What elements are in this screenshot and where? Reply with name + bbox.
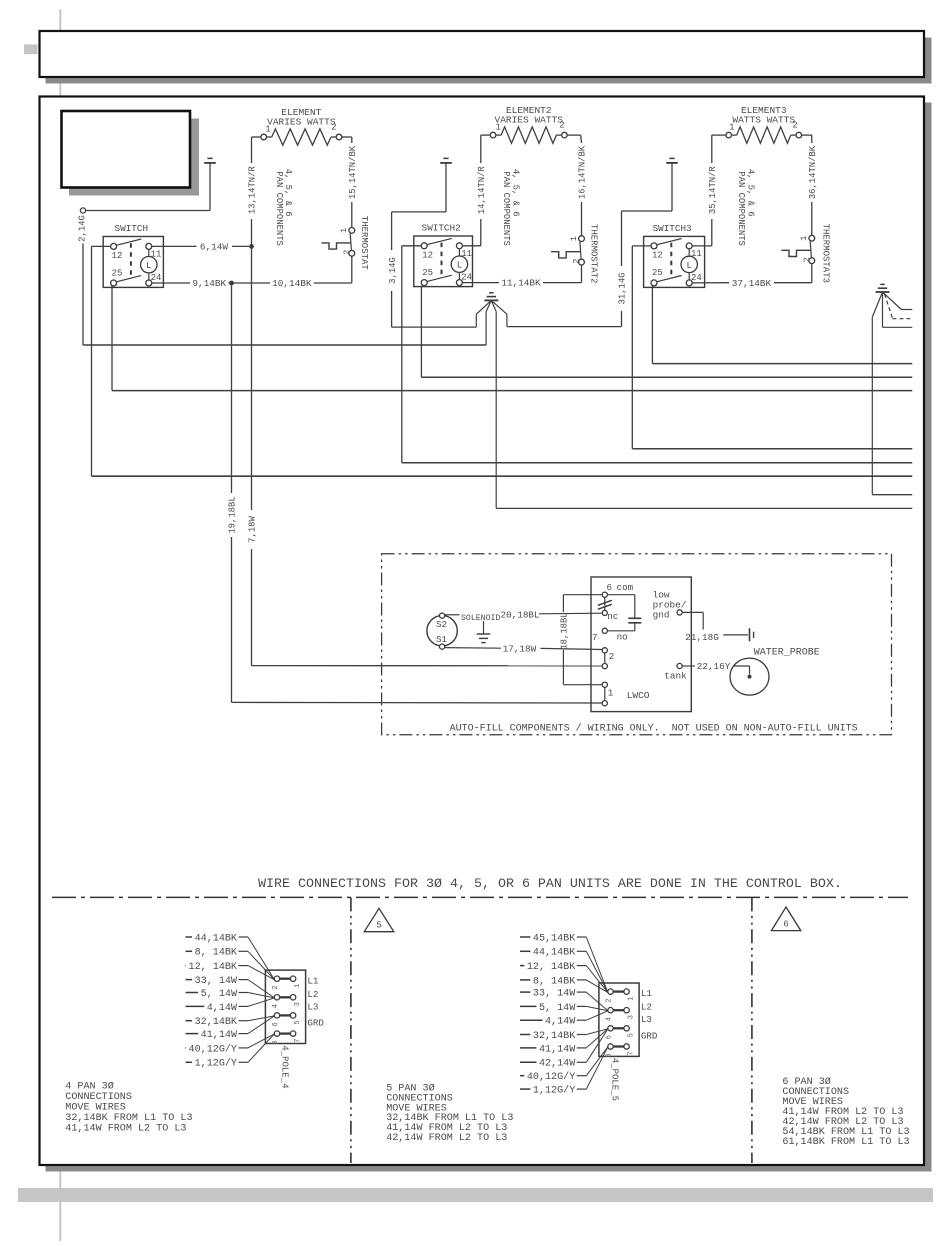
svg-text:41,14W FROM L2 TO L3: 41,14W FROM L2 TO L3 [65,1123,186,1134]
svg-text:CONNECTIONS: CONNECTIONS [65,1092,132,1103]
svg-text:4: 4 [605,1017,613,1021]
svg-text:WATER_PROBE: WATER_PROBE [754,648,820,659]
svg-text:17,18W: 17,18W [503,643,537,654]
svg-text:25: 25 [652,268,663,278]
svg-text:1: 1 [799,236,809,241]
svg-text:33, 14W: 33, 14W [195,976,238,987]
svg-text:L2: L2 [307,989,318,1000]
svg-text:33, 14W: 33, 14W [533,989,576,1000]
svg-text:31,14G: 31,14G [618,273,628,305]
svg-text:1: 1 [265,125,270,135]
svg-text:9,14BK: 9,14BK [192,278,226,289]
svg-text:L: L [146,261,151,271]
svg-text:THERMOSTAT: THERMOSTAT [359,216,369,271]
svg-text:L: L [457,261,462,271]
svg-text:8: 8 [272,1040,280,1044]
svg-text:SWITCH: SWITCH [115,223,148,234]
svg-text:2: 2 [331,123,336,133]
svg-text:2: 2 [272,986,280,990]
svg-text:THERMOSTAT2: THERMOSTAT2 [588,224,598,283]
svg-text:24: 24 [461,273,472,283]
svg-text:1: 1 [729,123,734,133]
svg-text:12, 14BK: 12, 14BK [189,962,238,973]
svg-text:5, 14W: 5, 14W [539,1003,576,1014]
svg-text:PAN COMPONENTS: PAN COMPONENTS [274,171,284,246]
svg-text:25: 25 [422,268,433,278]
svg-text:2: 2 [609,651,615,662]
svg-text:7: 7 [294,1038,302,1042]
svg-text:20,18BL: 20,18BL [501,609,540,620]
svg-text:L1: L1 [307,975,319,986]
svg-text:5: 5 [628,1033,636,1037]
svg-text:SOLENOID: SOLENOID [461,614,500,623]
svg-text:15,14TN/BK: 15,14TN/BK [348,145,358,199]
svg-text:L3: L3 [641,1014,652,1025]
svg-text:6: 6 [783,918,789,929]
svg-text:1,12G/Y: 1,12G/Y [195,1058,237,1070]
svg-text:22,16Y: 22,16Y [697,661,731,672]
svg-text:42,14W FROM L2 TO L3: 42,14W FROM L2 TO L3 [386,1133,507,1144]
svg-text:L2: L2 [641,1002,652,1013]
svg-text:5: 5 [376,920,382,931]
svg-text:6: 6 [605,1035,613,1039]
svg-text:4,14W: 4,14W [207,1003,238,1014]
svg-text:1: 1 [495,123,500,133]
svg-text:2: 2 [792,121,797,131]
svg-text:12: 12 [652,251,663,261]
svg-text:7: 7 [592,632,598,643]
svg-text:41,14W: 41,14W [539,1044,576,1055]
svg-text:19,18BL: 19,18BL [228,496,238,533]
svg-text:AUTO-FILL COMPONENTS / WIRING: AUTO-FILL COMPONENTS / WIRING ONLY. NOT … [450,722,858,734]
svg-text:10,14BK: 10,14BK [272,278,312,289]
svg-text:12: 12 [112,251,123,261]
svg-text:32,14BK: 32,14BK [533,1031,576,1042]
svg-text:LWCO: LWCO [627,690,650,701]
svg-text:40,12G/Y: 40,12G/Y [189,1043,237,1055]
svg-text:3: 3 [294,1002,302,1006]
svg-text:VARIES WATTS: VARIES WATTS [495,115,564,126]
svg-text:11: 11 [461,249,472,259]
svg-text:1: 1 [569,236,579,241]
svg-text:com: com [617,582,634,593]
svg-text:36,14TN/BK: 36,14TN/BK [808,145,818,199]
svg-text:SWITCH2: SWITCH2 [422,222,461,233]
svg-text:PAN COMPONENTS: PAN COMPONENTS [736,171,746,246]
svg-text:gnd: gnd [653,610,670,621]
svg-text:4_POLE_4: 4_POLE_4 [280,1045,290,1088]
svg-text:42,14W: 42,14W [539,1059,576,1070]
svg-text:nc: nc [607,611,618,622]
svg-text:L1: L1 [641,988,653,999]
svg-text:45,14BK: 45,14BK [533,933,576,944]
svg-text:44,14BK: 44,14BK [195,933,238,944]
svg-text:16,14TN/BK: 16,14TN/BK [578,145,588,199]
svg-text:21,18G: 21,18G [685,632,718,643]
svg-text:no: no [617,631,628,642]
svg-text:24: 24 [151,273,162,283]
svg-text:6,14W: 6,14W [200,242,229,253]
svg-text:13,14TN/R: 13,14TN/R [248,166,258,215]
svg-text:4,14W: 4,14W [545,1017,576,1028]
svg-text:MOVE WIRES: MOVE WIRES [65,1102,126,1113]
svg-text:1: 1 [339,228,349,233]
svg-text:4_POLE_5: 4_POLE_5 [609,1058,619,1101]
svg-text:6: 6 [607,582,613,593]
svg-text:2: 2 [605,998,613,1002]
svg-text:11: 11 [151,249,162,259]
svg-text:8, 14BK: 8, 14BK [533,976,576,987]
svg-text:5, 14W: 5, 14W [201,989,238,1000]
svg-text:32,14BK FROM L1 TO L3: 32,14BK FROM L1 TO L3 [65,1113,192,1124]
svg-text:2: 2 [572,259,582,264]
svg-text:4 PAN 3Ø: 4 PAN 3Ø [65,1080,113,1092]
svg-text:11: 11 [691,249,702,259]
svg-text:L3: L3 [307,1001,318,1012]
svg-text:24: 24 [691,273,702,283]
svg-text:PAN COMPONENTS: PAN COMPONENTS [501,171,511,246]
svg-text:7: 7 [628,1051,636,1055]
svg-text:tank: tank [664,671,687,682]
svg-text:1: 1 [294,984,302,988]
svg-text:THERMOSTAT3: THERMOSTAT3 [821,224,831,283]
svg-text:61,14BK FROM L1 TO L3: 61,14BK FROM L1 TO L3 [782,1137,909,1148]
svg-text:1: 1 [628,996,636,1000]
svg-text:18,18BL: 18,18BL [560,612,570,649]
svg-text:8, 14BK: 8, 14BK [195,948,238,959]
svg-text:3: 3 [628,1015,636,1019]
svg-text:5: 5 [294,1020,302,1024]
svg-text:2: 2 [342,250,352,255]
svg-text:WATTS WATTS: WATTS WATTS [732,115,795,126]
svg-text:SWITCH3: SWITCH3 [653,223,692,234]
svg-text:2: 2 [802,257,812,262]
svg-text:6: 6 [272,1022,280,1026]
svg-text:11,14BK: 11,14BK [501,278,541,289]
svg-text:2: 2 [559,121,564,131]
svg-text:25: 25 [112,269,123,279]
svg-text:1,12G/Y: 1,12G/Y [533,1085,575,1097]
svg-text:32,14BK: 32,14BK [195,1017,238,1028]
svg-text:14,14TN/R: 14,14TN/R [477,166,487,215]
svg-text:WIRE CONNECTIONS FOR 3Ø 4, 5,: WIRE CONNECTIONS FOR 3Ø 4, 5, OR 6 PAN U… [258,877,842,892]
svg-text:S1: S1 [436,634,448,645]
svg-text:12: 12 [422,250,433,260]
svg-text:44,14BK: 44,14BK [533,948,576,959]
svg-text:3,14G: 3,14G [388,257,398,284]
svg-text:2,14G: 2,14G [78,215,88,242]
svg-text:GRD: GRD [641,1030,658,1041]
svg-text:S2: S2 [436,619,447,630]
svg-text:37,14BK: 37,14BK [732,278,772,289]
svg-text:L: L [686,261,691,271]
svg-text:GRD: GRD [307,1017,324,1028]
svg-text:4: 4 [272,1004,280,1008]
svg-text:12, 14BK: 12, 14BK [527,962,576,973]
svg-text:VARIES WATTS: VARIES WATTS [267,116,336,127]
svg-text:1: 1 [608,688,614,699]
svg-text:40,12G/Y: 40,12G/Y [527,1071,575,1083]
svg-text:35,14TN/R: 35,14TN/R [708,166,718,215]
svg-text:7,18W: 7,18W [248,516,258,543]
svg-text:41,14W: 41,14W [201,1030,238,1041]
